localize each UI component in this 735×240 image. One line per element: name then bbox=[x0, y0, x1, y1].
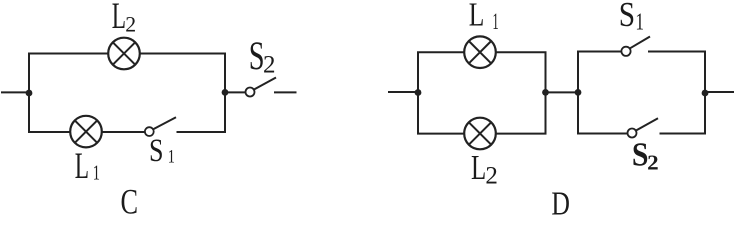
label S2 (circuit C) bbox=[249, 33, 276, 79]
label S1 (circuit D) bbox=[619, 0, 644, 35]
lamp L1 bbox=[70, 116, 102, 148]
node: circuit D middle right junction bbox=[575, 89, 582, 96]
svg-text:L: L bbox=[112, 0, 126, 36]
wire: circuit C junction to switch S2 bbox=[225, 91, 246, 93]
lamp L2 bbox=[108, 38, 140, 70]
switch S2 (circuit D) bbox=[628, 118, 659, 137]
svg-text:1: 1 bbox=[635, 7, 644, 35]
switch S1 bbox=[145, 117, 176, 136]
wire: circuit D right lead bbox=[705, 91, 734, 93]
svg-text:L: L bbox=[471, 148, 486, 187]
wire: circuit D switch-block right vertical bbox=[704, 52, 706, 134]
wire: circuit C right vertical bbox=[224, 54, 226, 133]
wire: circuit D switch-block left vertical bbox=[577, 52, 579, 134]
svg-text:L: L bbox=[469, 0, 485, 33]
node: circuit C left junction bbox=[26, 90, 33, 97]
svg-text:S: S bbox=[619, 0, 635, 34]
svg-text:2: 2 bbox=[647, 151, 659, 175]
svg-text:1: 1 bbox=[93, 161, 100, 184]
svg-text:S: S bbox=[149, 133, 163, 169]
wire: circuit C right lead bbox=[274, 91, 297, 93]
wire: circuit D switch top branch, left segment bbox=[577, 51, 622, 53]
wire: circuit D left lead bbox=[388, 91, 418, 93]
label L2 (circuit C) bbox=[112, 0, 136, 36]
lamp L1 (circuit D) bbox=[464, 36, 496, 68]
lamp L2 (circuit D) bbox=[464, 118, 496, 150]
label L1 (circuit D) bbox=[469, 0, 499, 35]
wire: circuit D middle link bbox=[546, 91, 579, 93]
wire: circuit C bottom branch, left segment bbox=[28, 131, 71, 133]
svg-text:2: 2 bbox=[263, 52, 276, 79]
wire: circuit D left vertical bbox=[417, 52, 419, 133]
svg-text:2: 2 bbox=[485, 163, 498, 190]
wire: circuit C bottom branch, right segment bbox=[177, 131, 227, 133]
wire: circuit D lamp-block right vertical bbox=[545, 52, 547, 133]
wire: circuit C bottom branch, middle segment bbox=[102, 131, 146, 133]
svg-text:1: 1 bbox=[492, 9, 498, 35]
node: circuit D left junction bbox=[415, 89, 422, 96]
label L2 (circuit D) bbox=[471, 148, 498, 190]
switch S2 bbox=[246, 78, 277, 97]
svg-text:2: 2 bbox=[125, 12, 136, 36]
switch S1 (circuit D) bbox=[621, 37, 650, 56]
label S1 (circuit C) bbox=[149, 133, 175, 169]
wire: circuit D lamp bottom branch, left segment bbox=[417, 133, 465, 135]
wire: circuit C top branch, right segment bbox=[140, 53, 227, 55]
wire: circuit D lamp top branch, right segment bbox=[496, 51, 547, 53]
svg-text:S: S bbox=[632, 135, 649, 173]
wire: circuit D switch top branch, right segment bbox=[648, 51, 706, 53]
node: circuit D middle left junction bbox=[542, 89, 549, 96]
wire: circuit D lamp top branch, left segment bbox=[417, 51, 465, 53]
label L1 (circuit C) bbox=[75, 146, 100, 186]
wire: circuit C left lead bbox=[1, 91, 29, 93]
wire: circuit D switch bottom branch, left segment bbox=[577, 133, 628, 135]
wire: circuit C left vertical bbox=[28, 54, 30, 133]
node: circuit D right junction bbox=[702, 90, 709, 97]
wire: circuit D lamp bottom branch, right segment bbox=[496, 133, 547, 135]
wire: circuit D switch bottom branch, right segment bbox=[660, 133, 707, 135]
svg-text:1: 1 bbox=[168, 146, 175, 167]
wire: circuit C top branch, left segment bbox=[28, 53, 109, 55]
svg-text:L: L bbox=[75, 146, 89, 186]
node: circuit C right junction bbox=[222, 89, 229, 96]
svg-text:D: D bbox=[551, 185, 570, 215]
svg-text:C: C bbox=[121, 181, 139, 215]
label S2 (circuit D, bold) bbox=[632, 135, 659, 175]
